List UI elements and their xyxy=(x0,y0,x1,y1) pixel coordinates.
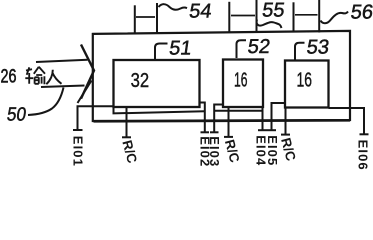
pin tick R/C 1 xyxy=(122,136,131,138)
svg-text:EI03: EI03 xyxy=(207,136,222,167)
svg-text:R/C: R/C xyxy=(278,136,299,163)
tie bar pair 1 xyxy=(136,16,155,18)
svg-text:52: 52 xyxy=(246,36,271,58)
pin tick R/C 2 xyxy=(224,136,233,138)
svg-text:R/C: R/C xyxy=(119,138,140,165)
leader squiggle 56 xyxy=(321,12,349,24)
wire top pair 1 right xyxy=(156,3,158,33)
pin tick EIO2 xyxy=(201,131,210,133)
svg-text:16: 16 xyxy=(297,69,313,91)
wire top pair 3 left xyxy=(293,2,295,32)
input arrowhead xyxy=(81,45,94,99)
tie bar pair 2 xyxy=(231,15,255,17)
hanzi ru (input char 2) xyxy=(46,70,61,84)
leader hook 51 xyxy=(155,44,168,60)
svg-text:50: 50 xyxy=(6,104,28,125)
svg-text:51: 51 xyxy=(168,38,193,60)
pin tick EIO6 xyxy=(360,133,369,135)
pin tick EIO4 xyxy=(258,129,267,131)
wire top pair 1 left xyxy=(134,5,136,32)
svg-text:EI05: EI05 xyxy=(265,135,280,166)
wire EIO5 xyxy=(272,103,287,130)
wire EIO2 xyxy=(199,103,205,133)
svg-text:EI06: EI06 xyxy=(355,140,370,171)
leader hook 53 xyxy=(295,43,305,60)
bus width slash xyxy=(78,81,92,104)
svg-text:EI01: EI01 xyxy=(70,136,85,167)
register box 52 value 16 xyxy=(223,60,263,108)
input arrow lower shaft xyxy=(41,86,85,88)
wire R/C 1 xyxy=(126,108,128,138)
leader squiggle 55 xyxy=(257,20,282,29)
wire R/C 3 xyxy=(285,108,287,135)
svg-text:26: 26 xyxy=(1,66,17,87)
pin tick R/C 3 xyxy=(281,134,290,136)
svg-text:56: 56 xyxy=(349,1,373,23)
svg-text:R/C: R/C xyxy=(222,138,243,165)
wire EIO1 xyxy=(78,106,114,130)
wire top pair 3 right xyxy=(318,0,320,33)
pin tick EIO1 xyxy=(73,129,83,131)
svg-text:32: 32 xyxy=(131,70,150,92)
pin tick EIO5 xyxy=(267,129,276,131)
input arrow upper shaft xyxy=(36,60,88,62)
register box 53 value 16 xyxy=(285,61,329,108)
wire EIO3 xyxy=(214,105,222,133)
register box 51 value 32 xyxy=(114,60,200,107)
wire top pair 2 left xyxy=(228,2,230,33)
tie bar pair 3 xyxy=(295,14,318,16)
wire R/C 2 xyxy=(228,108,230,137)
wire EIO6 xyxy=(329,108,365,134)
leader hook 52 xyxy=(237,40,247,58)
svg-text:55: 55 xyxy=(261,0,286,21)
leader curve 50 xyxy=(28,88,64,116)
wire top pair 2 right xyxy=(256,0,258,33)
leader squiggle 54 xyxy=(159,4,188,9)
svg-text:16: 16 xyxy=(234,69,248,91)
svg-text:53: 53 xyxy=(305,36,330,58)
bottom edge reinforcement xyxy=(94,121,351,122)
outer block 50 xyxy=(93,31,350,121)
svg-text:54: 54 xyxy=(188,0,213,22)
bus L2 under box 52 xyxy=(214,110,262,112)
wire EIO4 xyxy=(262,108,264,130)
hanzi shu (input char 1) xyxy=(25,67,45,84)
pin tick EIO3 xyxy=(210,131,219,133)
bus L1 under box 51 xyxy=(114,108,205,114)
